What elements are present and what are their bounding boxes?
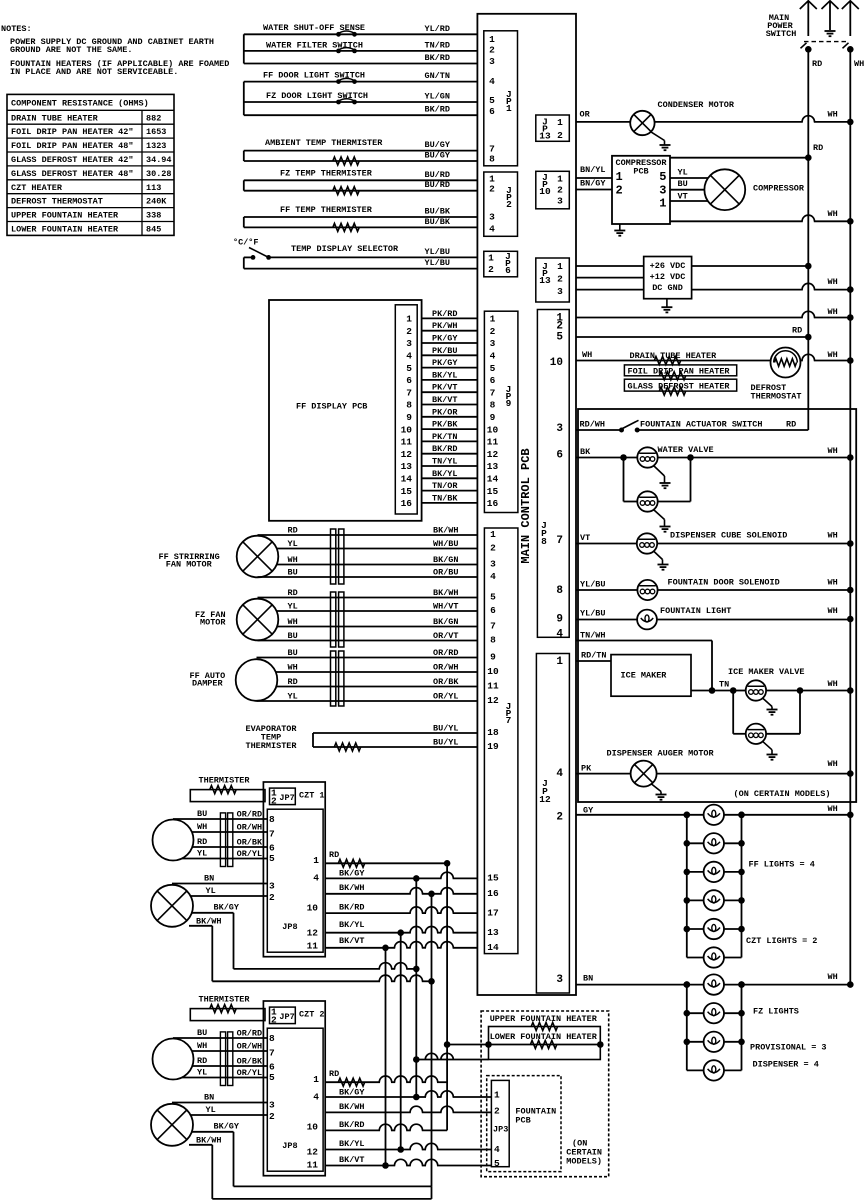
svg-text:PK/GY: PK/GY <box>432 334 458 344</box>
svg-text:12: 12 <box>401 449 413 460</box>
svg-text:BK/YL: BK/YL <box>432 370 458 380</box>
svg-text:BK/VT: BK/VT <box>339 1155 365 1165</box>
svg-text:3: 3 <box>489 212 495 223</box>
svg-text:BN: BN <box>583 974 593 984</box>
connector JP2 <box>484 172 518 236</box>
svg-text:FF DISPLAY PCB: FF DISPLAY PCB <box>296 402 367 412</box>
svg-text:WH: WH <box>854 59 864 69</box>
svg-text:BK/YL: BK/YL <box>339 1139 365 1149</box>
notes text <box>1 24 229 77</box>
svg-text:GLASS DEFROST HEATER 48": GLASS DEFROST HEATER 48" <box>11 169 133 179</box>
svg-text:OR/RD: OR/RD <box>433 648 459 658</box>
svg-text:14: 14 <box>487 474 499 485</box>
svg-text:240K: 240K <box>146 197 167 207</box>
svg-text:3: 3 <box>556 423 563 435</box>
svg-text:7: 7 <box>269 828 275 839</box>
wire czt1 lamp BK/GY routed <box>234 913 420 972</box>
svg-text:RD: RD <box>786 420 796 430</box>
foil drip pan heater <box>624 365 736 380</box>
svg-text:1: 1 <box>557 117 563 128</box>
svg-text:3: 3 <box>406 338 412 349</box>
main control PCB label <box>519 448 533 563</box>
wire BK/GY czt1 to JP7-15 <box>325 869 477 882</box>
wire BK/YL czt1 to JP7-13 <box>325 920 477 936</box>
switch link dashed <box>801 42 854 53</box>
svg-text:FOIL DRIP PAN HEATER 42": FOIL DRIP PAN HEATER 42" <box>11 127 133 137</box>
connector JP12 <box>536 654 569 994</box>
svg-text:OR/WH: OR/WH <box>237 1042 263 1052</box>
svg-text:1: 1 <box>494 1090 500 1101</box>
svg-text:WH: WH <box>828 446 838 456</box>
ground ice maker valve 1 <box>763 698 778 715</box>
svg-text:YL: YL <box>288 692 298 702</box>
fz temp thermistor <box>244 169 478 195</box>
svg-text:BU: BU <box>288 648 298 658</box>
svg-text:1: 1 <box>557 174 563 185</box>
svg-text:113: 113 <box>146 183 161 193</box>
svg-text:845: 845 <box>146 225 161 235</box>
svg-text:VT: VT <box>678 192 688 202</box>
svg-text:7: 7 <box>506 715 512 726</box>
svg-text:BK/GN: BK/GN <box>433 555 459 565</box>
main power switch <box>766 1 859 39</box>
svg-text:+12 VDC: +12 VDC <box>650 272 686 282</box>
svg-text:9: 9 <box>406 412 412 423</box>
svg-text:2: 2 <box>269 892 275 903</box>
svg-text:8: 8 <box>490 635 496 646</box>
component resistance table <box>7 94 174 235</box>
wire VT compressor <box>670 192 709 202</box>
connector ff damper <box>331 651 344 706</box>
condenser motor <box>630 100 735 135</box>
svg-text:9: 9 <box>490 412 496 423</box>
ground water valve 2 <box>654 510 671 532</box>
svg-text:BU/GY: BU/GY <box>424 151 450 161</box>
svg-text:PK/BK: PK/BK <box>432 420 458 430</box>
czt 2 motor <box>153 1028 268 1080</box>
wire JP13 to DC GND <box>576 277 854 293</box>
svg-text:BU/GY: BU/GY <box>424 140 450 150</box>
wire BK/YL czt2 to JP3-4 <box>325 1139 491 1153</box>
fz door light switch <box>244 91 478 105</box>
svg-text:WH: WH <box>828 531 838 541</box>
svg-text:BK/WH: BK/WH <box>339 1102 365 1112</box>
svg-text:13: 13 <box>487 461 499 472</box>
svg-text:CZT LIGHTS = 2: CZT LIGHTS = 2 <box>746 936 817 946</box>
svg-text:10: 10 <box>307 1122 319 1133</box>
svg-text:4: 4 <box>489 76 495 87</box>
svg-text:WH/BU: WH/BU <box>433 539 459 549</box>
drain tube heater label <box>630 351 718 361</box>
svg-text:BU/RD: BU/RD <box>424 180 450 190</box>
svg-text:10: 10 <box>539 186 551 197</box>
svg-text:PK/GY: PK/GY <box>432 358 458 368</box>
main control PCB <box>477 14 576 995</box>
svg-text:7: 7 <box>490 387 496 398</box>
ground main power <box>825 31 836 36</box>
dispenser cube solenoid <box>576 531 854 554</box>
svg-text:PCB: PCB <box>515 1116 530 1126</box>
svg-text:BK/GY: BK/GY <box>339 1088 365 1098</box>
czt 2 outer box <box>263 1001 325 1176</box>
svg-text:WH: WH <box>582 350 592 360</box>
svg-text:BK/RD: BK/RD <box>339 903 365 913</box>
wire BK water valve <box>576 446 854 461</box>
svg-text:PK: PK <box>581 764 592 774</box>
svg-text:YL/RD: YL/RD <box>424 24 450 34</box>
czt 2 motor connector <box>220 1032 232 1086</box>
fz provisional dispenser lamp bank <box>684 974 827 1080</box>
svg-text:FAN MOTOR: FAN MOTOR <box>166 560 213 570</box>
czt 1 connector JP7 <box>270 787 325 806</box>
svg-text:BK/VT: BK/VT <box>432 395 458 405</box>
svg-text:10: 10 <box>307 903 319 914</box>
svg-text:6: 6 <box>490 605 496 616</box>
svg-text:THERMOSTAT: THERMOSTAT <box>751 392 802 402</box>
svg-text:WATER FILTER SWITCH: WATER FILTER SWITCH <box>266 41 363 51</box>
svg-text:ICE MAKER: ICE MAKER <box>621 671 668 681</box>
ground ice maker valve 2 <box>763 741 778 759</box>
fountain PCB box <box>487 1076 561 1172</box>
svg-text:17: 17 <box>487 907 499 918</box>
svg-text:13: 13 <box>487 927 499 938</box>
glass defrost heater <box>624 379 736 395</box>
svg-text:YL: YL <box>206 1105 216 1115</box>
wire czt2 lamp BK/GY routed <box>234 1132 432 1187</box>
svg-text:RD: RD <box>813 143 823 153</box>
svg-text:VT: VT <box>580 533 590 543</box>
svg-text:CZT HEATER: CZT HEATER <box>11 183 63 193</box>
svg-text:2: 2 <box>556 812 563 824</box>
svg-text:WH: WH <box>828 679 838 689</box>
svg-text:7: 7 <box>269 1047 275 1058</box>
svg-text:338: 338 <box>146 211 161 221</box>
svg-text:2: 2 <box>489 45 495 56</box>
svg-text:BU/BK: BU/BK <box>424 207 450 217</box>
svg-text:5: 5 <box>556 332 563 344</box>
wire JP13 to +12VDC <box>576 277 644 279</box>
svg-text:2: 2 <box>557 130 563 141</box>
svg-text:30.28: 30.28 <box>146 169 172 179</box>
wire BN/YL <box>576 165 612 178</box>
svg-text:14: 14 <box>487 942 499 953</box>
svg-text:1653: 1653 <box>146 127 166 137</box>
svg-text:DC GND: DC GND <box>652 283 683 293</box>
svg-text:UPPER FOUNTAIN HEATER: UPPER FOUNTAIN HEATER <box>490 1014 598 1024</box>
svg-text:6: 6 <box>490 375 496 386</box>
svg-text:DRAIN TUBE HEATER: DRAIN TUBE HEATER <box>630 351 718 361</box>
svg-text:JP8: JP8 <box>282 922 297 932</box>
svg-text:WH: WH <box>828 110 838 120</box>
defrost thermostat <box>751 348 802 402</box>
connector JP13 lower <box>536 258 570 302</box>
svg-text:GN/TN: GN/TN <box>424 71 450 81</box>
svg-text:WH: WH <box>828 606 838 616</box>
water shut-off sense switch <box>244 23 478 37</box>
svg-text:BU: BU <box>197 809 207 819</box>
net vertical BK/YL <box>400 933 402 1150</box>
svg-text:4: 4 <box>556 768 563 780</box>
svg-text:BN: BN <box>204 874 214 884</box>
svg-text:7: 7 <box>406 387 412 398</box>
svg-text:WH: WH <box>828 578 838 588</box>
svg-text:YL: YL <box>197 849 207 859</box>
svg-text:TN/WH: TN/WH <box>580 631 606 641</box>
svg-text:5: 5 <box>489 95 495 106</box>
ground dc supply <box>661 299 672 313</box>
svg-text:1: 1 <box>489 34 495 45</box>
fountain box outer <box>481 1011 609 1177</box>
connector JP7 <box>484 528 518 954</box>
svg-text:MAIN CONTROL PCB: MAIN CONTROL PCB <box>519 448 533 563</box>
svg-text:OR/YL: OR/YL <box>237 849 263 859</box>
svg-text:°C/°F: °C/°F <box>233 238 259 248</box>
svg-text:12: 12 <box>307 927 319 938</box>
svg-text:JP7: JP7 <box>279 1012 294 1022</box>
svg-text:BN: BN <box>204 1093 214 1103</box>
ground condenser <box>651 132 671 150</box>
svg-text:7: 7 <box>490 621 496 632</box>
svg-text:16: 16 <box>487 498 499 509</box>
water valve solenoid 1 <box>637 445 713 468</box>
svg-text:16: 16 <box>401 498 413 509</box>
connector JP6 <box>484 251 518 277</box>
wire RD JP8-5 <box>576 326 812 341</box>
fountain light <box>576 606 854 629</box>
svg-text:11: 11 <box>487 681 499 692</box>
svg-text:1: 1 <box>406 314 412 325</box>
svg-text:8: 8 <box>269 1033 275 1044</box>
ground water valve 1 <box>654 466 671 488</box>
compressor motor <box>704 169 805 210</box>
svg-text:10: 10 <box>401 424 413 435</box>
svg-text:6: 6 <box>406 375 412 386</box>
svg-text:RD: RD <box>812 59 822 69</box>
svg-text:RD: RD <box>288 526 298 536</box>
svg-text:34.94: 34.94 <box>146 155 172 165</box>
wire WH JP8-1 <box>576 307 854 321</box>
net vertical BK/GY <box>415 878 417 1097</box>
czt 2 lamp wire BK/GY <box>192 1122 240 1132</box>
bus WH vertical <box>850 49 864 984</box>
svg-text:10: 10 <box>487 424 499 435</box>
connector JP13 upper <box>536 115 570 142</box>
svg-text:9: 9 <box>556 614 563 626</box>
svg-text:NOTES:: NOTES: <box>1 24 32 34</box>
ff temp thermistor <box>244 205 478 231</box>
wire OR condenser <box>576 110 854 126</box>
svg-text:MOTOR: MOTOR <box>200 618 226 628</box>
DC power supply box <box>644 257 692 299</box>
svg-text:BU/RD: BU/RD <box>424 170 450 180</box>
svg-text:UPPER FOUNTAIN HEATER: UPPER FOUNTAIN HEATER <box>11 211 119 221</box>
wire BK/WH czt1 to JP7-16 <box>325 883 477 897</box>
svg-text:YL: YL <box>197 1068 207 1078</box>
czt 2 connector JP8 <box>267 1028 323 1171</box>
svg-text:BK/GY: BK/GY <box>339 869 365 879</box>
svg-text:1: 1 <box>490 529 496 540</box>
svg-text:RD: RD <box>329 850 339 860</box>
svg-text:FOUNTAIN ACTUATOR SWITCH: FOUNTAIN ACTUATOR SWITCH <box>640 420 762 430</box>
svg-text:2: 2 <box>616 184 623 198</box>
svg-text:LOWER FOUNTAIN HEATER: LOWER FOUNTAIN HEATER <box>490 1032 598 1042</box>
svg-text:1: 1 <box>659 197 666 211</box>
svg-text:PROVISIONAL = 3: PROVISIONAL = 3 <box>750 1043 827 1053</box>
svg-text:BN/YL: BN/YL <box>580 165 606 175</box>
svg-text:2: 2 <box>271 1014 277 1025</box>
svg-text:12: 12 <box>307 1146 319 1157</box>
svg-text:3: 3 <box>489 56 495 67</box>
svg-text:BK/YL: BK/YL <box>432 469 458 479</box>
lower fountain heater <box>485 1032 603 1049</box>
svg-text:8: 8 <box>541 536 547 547</box>
svg-text:2: 2 <box>490 543 496 554</box>
svg-text:1: 1 <box>490 314 496 325</box>
svg-text:TEMP DISPLAY SELECTOR: TEMP DISPLAY SELECTOR <box>291 244 399 254</box>
svg-text:BK/WH: BK/WH <box>433 588 459 598</box>
svg-text:8: 8 <box>489 154 495 165</box>
svg-text:FF TEMP THERMISTER: FF TEMP THERMISTER <box>280 205 373 215</box>
svg-text:11: 11 <box>307 1160 319 1171</box>
czt 1 outer box <box>263 782 325 957</box>
svg-text:1: 1 <box>616 170 623 184</box>
svg-text:OR/RD: OR/RD <box>237 1029 263 1039</box>
svg-text:BU: BU <box>678 179 688 189</box>
svg-text:13: 13 <box>539 275 551 286</box>
wire BN/GY <box>576 179 612 190</box>
svg-text:THERMISTER: THERMISTER <box>245 741 297 751</box>
ice maker <box>611 655 691 697</box>
svg-text:3: 3 <box>556 974 563 986</box>
svg-text:3: 3 <box>269 881 275 892</box>
connector JP1 <box>484 31 518 166</box>
svg-text:OR/YL: OR/YL <box>237 1068 263 1078</box>
svg-text:OR/BU: OR/BU <box>433 568 459 578</box>
svg-text:RD/TN: RD/TN <box>581 651 607 661</box>
svg-text:1: 1 <box>488 253 494 264</box>
svg-text:2: 2 <box>557 274 563 285</box>
svg-text:6: 6 <box>269 1061 275 1072</box>
wire BK/WH czt2 to JP3-2 <box>325 1102 491 1112</box>
svg-text:4: 4 <box>556 629 563 641</box>
svg-text:OR/YL: OR/YL <box>433 692 459 702</box>
net vertical BK/WH <box>431 894 433 1187</box>
svg-text:BK/VT: BK/VT <box>339 936 365 946</box>
wire czt1 lamp BK/WH routed <box>212 926 435 985</box>
ambient temp thermistor <box>244 138 478 165</box>
ff door light switch <box>244 71 478 85</box>
wire RD czt2 <box>325 1069 447 1086</box>
connector ff stirring <box>331 529 344 584</box>
svg-text:BK/WH: BK/WH <box>196 1135 222 1145</box>
compressor PCB <box>612 156 670 224</box>
svg-text:YL/BU: YL/BU <box>580 580 606 590</box>
wire JP13 to +26VDC <box>576 263 812 270</box>
svg-text:TN/RD: TN/RD <box>424 40 450 50</box>
svg-text:TN/OR: TN/OR <box>432 481 458 491</box>
svg-text:WH: WH <box>828 804 838 814</box>
svg-text:9: 9 <box>506 398 512 409</box>
wire BK/RD switch common 2 <box>244 82 478 116</box>
svg-text:DISPENSER CUBE SOLENOID: DISPENSER CUBE SOLENOID <box>670 531 787 541</box>
svg-text:1: 1 <box>556 656 563 668</box>
wire BK/VT czt1 to JP7-14 <box>325 936 477 951</box>
connector fz fan <box>331 592 344 647</box>
svg-text:3: 3 <box>490 338 496 349</box>
svg-text:OR/BK: OR/BK <box>237 1057 263 1067</box>
svg-text:11: 11 <box>401 437 413 448</box>
svg-text:OR/BK: OR/BK <box>237 838 263 848</box>
svg-text:4: 4 <box>406 351 412 362</box>
svg-text:FF LIGHTS = 4: FF LIGHTS = 4 <box>749 860 815 870</box>
svg-text:1: 1 <box>313 855 319 866</box>
svg-text:BN/GY: BN/GY <box>580 179 606 189</box>
svg-text:RD: RD <box>197 1056 207 1066</box>
net vertical BK/VT <box>385 948 387 1166</box>
wire GY ff czt lights <box>576 804 854 818</box>
czt 1 lamp wire BK/WH <box>189 916 222 926</box>
svg-text:RD: RD <box>329 1069 339 1079</box>
ff stirring fan motor <box>159 526 478 578</box>
svg-text:BU: BU <box>288 631 298 641</box>
svg-text:CONDENSER MOTOR: CONDENSER MOTOR <box>658 100 735 110</box>
svg-text:BK/RD: BK/RD <box>339 1120 365 1130</box>
svg-text:2: 2 <box>406 326 412 337</box>
svg-text:WH: WH <box>828 972 838 982</box>
svg-text:BU/BK: BU/BK <box>424 217 450 227</box>
svg-text:OR/WH: OR/WH <box>237 823 263 833</box>
czt 1 lamp wire BK/GY <box>192 903 240 913</box>
svg-text:10: 10 <box>550 357 563 369</box>
svg-text:BK/RD: BK/RD <box>432 444 458 454</box>
wire RD czt1 <box>325 850 450 867</box>
svg-text:ICE MAKER VALVE: ICE MAKER VALVE <box>728 667 805 677</box>
czt 2 lamp wire BK/WH <box>189 1135 222 1145</box>
svg-text:1: 1 <box>557 261 563 272</box>
fz fan motor <box>195 588 477 641</box>
svg-text:882: 882 <box>146 113 161 123</box>
svg-text:4: 4 <box>490 571 496 582</box>
svg-text:13: 13 <box>401 461 413 472</box>
wire BK/GY czt2 to JP3-1 <box>325 1088 491 1101</box>
wire TN/WH ice maker <box>576 631 712 691</box>
connector JP3 <box>491 1080 509 1169</box>
ice maker valve 2 parallel <box>733 691 800 745</box>
wire RD compressor pcb <box>670 143 823 161</box>
svg-text:COMPRESSOR: COMPRESSOR <box>753 184 805 194</box>
czt 1 thermistor <box>190 776 265 802</box>
svg-text:BK/YL: BK/YL <box>339 920 365 930</box>
svg-text:8: 8 <box>490 400 496 411</box>
svg-text:PK/OR: PK/OR <box>432 407 458 417</box>
svg-text:DEFROST THERMOSTAT: DEFROST THERMOSTAT <box>11 197 103 207</box>
svg-text:WH: WH <box>288 617 298 627</box>
svg-text:RD: RD <box>792 326 802 336</box>
svg-text:5: 5 <box>490 592 496 603</box>
svg-text:BK: BK <box>580 447 591 457</box>
svg-text:RD/WH: RD/WH <box>580 420 606 430</box>
svg-text:BU/YL: BU/YL <box>433 724 459 734</box>
czt 1 lamp <box>151 874 267 927</box>
svg-text:DAMPER: DAMPER <box>192 679 224 689</box>
svg-text:OR/RD: OR/RD <box>237 810 263 820</box>
svg-text:WH: WH <box>288 555 298 565</box>
svg-text:JP8: JP8 <box>282 1141 297 1151</box>
wire BK/VT czt2 to JP3-5 <box>325 1155 491 1169</box>
wire WH compressor return <box>670 209 854 225</box>
ground compressor pcb <box>614 224 625 236</box>
svg-text:OR/BK: OR/BK <box>433 677 459 687</box>
